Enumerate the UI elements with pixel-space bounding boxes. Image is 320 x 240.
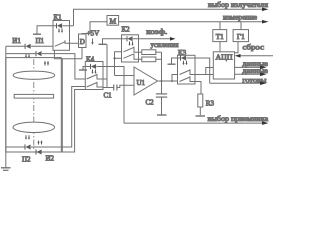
boxes T1 G1 (219, 22, 221, 30)
wire данные 2 (235, 73, 261, 75)
relay K3 box (178, 55, 196, 84)
wire данные 1 (235, 66, 261, 68)
+5V arrow (92, 39, 94, 44)
receiver diode P2 (6, 146, 25, 148)
K4 LED (91, 64, 97, 69)
P2 light arrows (down) (25, 135, 27, 139)
relay K1 LED (57, 23, 63, 28)
wire I1 (6, 45, 25, 47)
resistor Rb (139, 58, 142, 60)
wire to K3 sw1 (172, 75, 178, 82)
ground K3 (168, 63, 176, 65)
wire K4 outputs to C1 (103, 79, 107, 88)
svg-text:выбор приемника: выбор приемника (208, 114, 269, 123)
svg-text:П2: П2 (22, 155, 31, 163)
diode P1 (6, 53, 36, 55)
wire K1 switch to D (70, 42, 79, 44)
wire K1 bottom stub bus (54, 50, 82, 59)
K3 switch 1 (180, 70, 191, 75)
svg-text:К2: К2 (122, 26, 131, 34)
svg-text:измерение: измерение (223, 13, 258, 22)
svg-text:М: М (109, 17, 116, 26)
wire bus B: измерение (90, 22, 107, 34)
emitter diode I2 (34, 151, 37, 153)
svg-text:выбор излучателя: выбор излучателя (208, 0, 269, 9)
feedback wire (161, 52, 163, 93)
wire +5V to D (82, 33, 90, 36)
wire K4 anode to bus riser (103, 67, 124, 124)
I1 light arrows (25, 54, 27, 58)
wire C1 to op-amp input (117, 85, 134, 87)
wire K3 sw1 to ADC (195, 74, 213, 76)
relay K2 box (122, 35, 139, 62)
P1 light arrows (up) (44, 61, 49, 66)
wire bus A: выбор излучателя (74, 9, 264, 26)
K2 LED (127, 36, 133, 41)
wire готовы (210, 82, 261, 84)
relay K1 box (53, 21, 70, 51)
wire from K2 sw1 (115, 52, 122, 76)
K2 switch 2 (124, 54, 135, 59)
wire D bottom down (81, 48, 83, 59)
svg-text:С2: С2 (146, 99, 155, 107)
K3 switch 2 (180, 77, 191, 82)
svg-text:U1: U1 (137, 79, 146, 87)
wire K1 led to ground (37, 26, 56, 34)
wire сброс (240, 55, 273, 57)
optical assembly box (6, 58, 62, 152)
ground K1 (33, 33, 41, 35)
wire from K2 sw2 (115, 57, 122, 59)
capacitor C1 (113, 85, 115, 91)
optical axis dash-dot (33, 59, 35, 150)
resistor R3 (198, 94, 203, 107)
box G1 (233, 30, 248, 42)
svg-text:Т1: Т1 (216, 33, 224, 41)
svg-text:И1: И1 (12, 37, 21, 45)
svg-text:АЦП: АЦП (216, 52, 234, 61)
svg-text:К4: К4 (86, 56, 95, 64)
wire T1 to ADC (219, 42, 221, 52)
svg-text:+5V: +5V (87, 30, 101, 38)
svg-text:П1: П1 (36, 37, 45, 45)
wire K4 bottom to I2 (61, 90, 90, 153)
op-amp U1 (134, 67, 158, 95)
ground K4 (79, 69, 87, 71)
wire K3 led ground (172, 58, 181, 64)
svg-text:Г1: Г1 (237, 33, 245, 41)
relay K4 box (85, 62, 103, 90)
box M (107, 16, 119, 26)
wire K1 anode to bus A (70, 25, 74, 27)
wire K2 anode / коэф. усиления arrow (133, 38, 171, 40)
box ADC (213, 52, 234, 79)
wire K3 sw2 to R3 (195, 82, 201, 95)
K4 switch 2 (87, 83, 98, 88)
svg-text:усиления: усиления (151, 40, 180, 49)
lens 1 (13, 71, 55, 79)
wire K4 led to ground (83, 67, 90, 70)
svg-text:С1: С1 (104, 91, 113, 99)
wire P2 to K4 riser (31, 87, 85, 148)
svg-text:R3: R3 (206, 100, 215, 108)
wire K3 anode to gotovy line (187, 58, 210, 83)
K1 LED light arrows (58, 29, 60, 33)
svg-text:коэф.: коэф. (146, 27, 167, 36)
wire fork to ADC upper input (206, 68, 214, 75)
ground K2 (99, 43, 107, 45)
lens 2 (13, 122, 55, 132)
svg-text:D: D (80, 38, 85, 46)
wire U1 output (158, 80, 178, 82)
ground R3 (196, 115, 206, 117)
K3 LED (181, 55, 187, 60)
diode I1 (25, 44, 31, 49)
box D (79, 34, 87, 48)
wire G1 to ADC (235, 42, 238, 53)
wire K2 led ground (103, 39, 127, 44)
resistor Ra (139, 51, 142, 53)
junction dots (171, 80, 173, 82)
wire P1 to K4 (42, 54, 85, 79)
ground C2 (157, 114, 167, 116)
capacitor C2 (156, 93, 167, 95)
wire common left down (5, 46, 7, 167)
K4 switch 1 (87, 75, 98, 80)
box T1 (213, 30, 227, 42)
wire bus выбор приемника (124, 122, 263, 124)
relay K1 switch (55, 42, 65, 47)
svg-text:И2: И2 (46, 154, 55, 162)
wire to emitter I2 down (43, 59, 63, 152)
svg-text:сброс: сброс (243, 43, 265, 52)
K2 switch 1 (124, 47, 135, 52)
wire inverting input (115, 75, 135, 77)
ground bottom-left (1, 167, 11, 169)
I2 light arrows (up) (37, 140, 42, 145)
aperture plate (14, 94, 53, 98)
